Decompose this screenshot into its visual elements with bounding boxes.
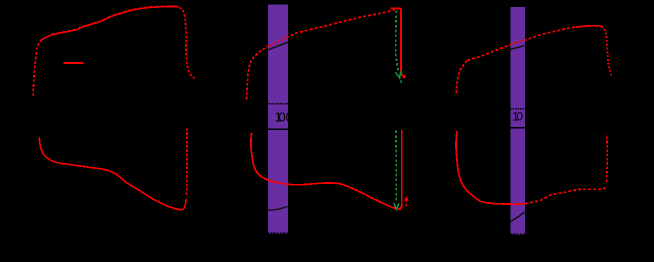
middle panel: green dashed arrow top — [396, 11, 399, 72]
right panel: purple dielectric bar (10) — [510, 7, 525, 235]
middle panel: lower right vertical solid — [398, 130, 402, 209]
left panel: lower branch solid — [39, 137, 186, 210]
right panel: black 1st-cycle segment on bar bottom — [510, 212, 525, 222]
left panel: P-E loop upper-left dashed tail — [33, 38, 44, 96]
right panel: right drop dotted — [601, 26, 611, 75]
right panel: lower branch solid — [456, 131, 525, 204]
middle panel: lower branch solid — [251, 133, 401, 209]
right panel: black 1st-cycle segment on bar top — [510, 46, 524, 50]
middle panel: red arrowhead at hook — [402, 75, 406, 79]
middle panel: purple dielectric bar (100) — [268, 5, 288, 234]
right panel: black dashed zero line on bar — [510, 108, 525, 110]
middle panel: green dashed arrow bottom — [395, 131, 397, 203]
middle panel: top plateau solid — [390, 7, 401, 9]
right panel: lower branch dashed right of bar — [525, 186, 606, 204]
middle panel: black 1st-cycle segment on bar bottom — [268, 207, 288, 211]
right panel: upper plateau solid — [576, 26, 601, 27]
middle panel: black 1st-cycle segment on bar top — [268, 42, 288, 50]
middle panel: upper branch dashed — [268, 8, 401, 46]
middle panel: black axis dashes at bar bottom — [268, 232, 288, 234]
left panel: upper branch solid (3rd cycle) — [41, 7, 179, 41]
left panel: lower branch dashed overlay — [61, 164, 179, 210]
right panel: right riser dashed — [606, 134, 609, 182]
left panel: legend line — [64, 62, 84, 64]
middle panel: right drop solid with hook — [401, 8, 405, 77]
middle panel: upper-left dashed tail — [247, 46, 269, 99]
middle panel: black dashed zero line on bar — [268, 103, 288, 105]
svg-text:0: 0 — [517, 110, 524, 124]
middle panel: small red up arrow — [405, 200, 407, 203]
right panel: black line below label — [510, 127, 525, 129]
svg-text:0: 0 — [279, 110, 286, 125]
left panel: right riser dashed — [185, 128, 188, 195]
right panel: black axis dashes at bar bottom — [510, 233, 525, 235]
svg-text:0: 0 — [286, 110, 293, 125]
left panel: upper branch dashed (2nd cycle) — [51, 6, 178, 34]
right panel: upper-left dashed tail — [456, 60, 467, 93]
right panel: upper branch dashed — [467, 27, 578, 61]
left panel: right drop dashed — [180, 8, 197, 80]
middle panel: black line below label — [268, 128, 288, 130]
